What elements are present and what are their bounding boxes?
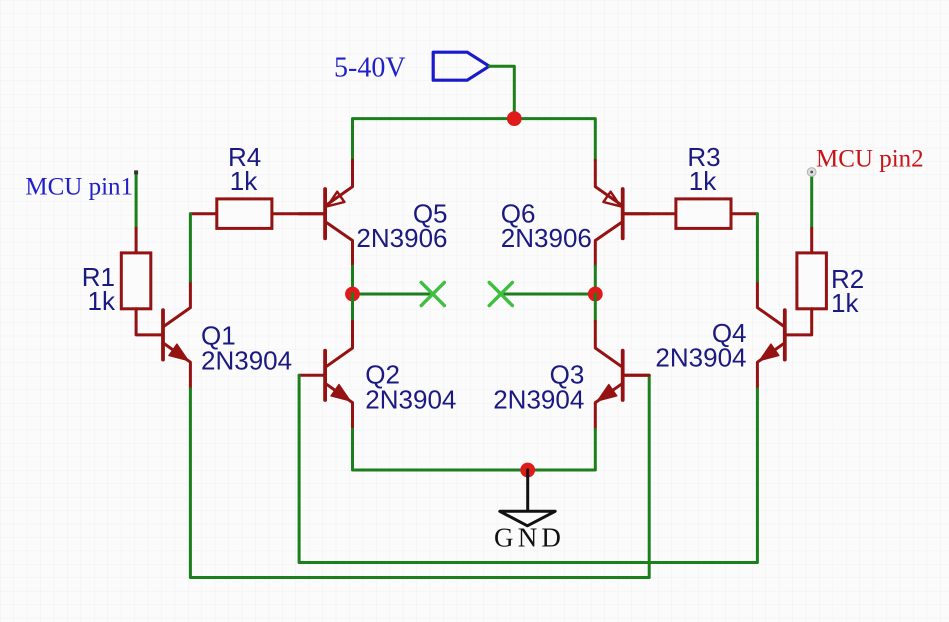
junction node A: [345, 287, 360, 302]
label MCU pin2: [816, 146, 924, 173]
wire node B stub: [501, 293, 596, 296]
svg-text:2N3904: 2N3904: [365, 384, 456, 414]
label R2: [831, 264, 864, 318]
svg-text:2N3906: 2N3906: [356, 223, 447, 253]
transistor Q3 (NPN): [595, 321, 648, 429]
wire Q1 collector to R4: [189, 214, 192, 281]
svg-text:2N3904: 2N3904: [493, 384, 584, 414]
label Q1: [201, 321, 292, 376]
transistor Q5 (PNP): [299, 160, 352, 266]
svg-text:2N3906: 2N3906: [501, 223, 592, 253]
svg-text:GND: GND: [494, 523, 565, 553]
resistor R1: [121, 228, 163, 335]
wire top rail: [353, 119, 596, 161]
ground GND: [494, 470, 565, 553]
transistor Q4 (NPN): [757, 281, 784, 389]
wire Q1 emitter to Q3 base: [190, 375, 649, 577]
svg-text:MCU pin2: MCU pin2: [816, 146, 924, 173]
transistor Q6 (PNP): [595, 160, 648, 266]
svg-text:1k: 1k: [88, 286, 116, 316]
wire supply: [489, 66, 514, 118]
transistor Q1 (NPN): [163, 281, 190, 389]
label Q2: [365, 360, 456, 415]
svg-text:1k: 1k: [230, 166, 258, 196]
wire Q2 emitter to ground bus: [353, 429, 528, 470]
svg-text:5-40V: 5-40V: [334, 53, 406, 84]
transistor Q2 (NPN): [299, 321, 352, 429]
junction node B: [588, 287, 603, 302]
label MCU pin1: [25, 174, 133, 201]
wire Q2 base to Q4 emitter: [299, 375, 757, 562]
svg-text:MCU pin1: MCU pin1: [25, 174, 133, 201]
junction supply/rail: [507, 111, 522, 126]
svg-text:1k: 1k: [689, 166, 717, 196]
wire Q4 collector to R3: [756, 214, 759, 281]
label R3: [687, 142, 720, 196]
label Q5: [356, 199, 447, 253]
wire Q3 emitter to ground bus: [528, 429, 596, 470]
power flag 5-40V: [334, 52, 489, 83]
label Q4: [655, 318, 746, 373]
wire Q5 collector to node: [351, 266, 354, 294]
svg-text:2N3904: 2N3904: [201, 345, 292, 375]
resistor R4: [190, 199, 325, 229]
no-connect X right: [489, 282, 512, 305]
no-connect X left: [421, 282, 444, 305]
wire node B to Q3: [594, 294, 597, 321]
wire MCU pin1: [134, 170, 138, 228]
label Q6: [501, 199, 592, 253]
label R1: [82, 262, 116, 316]
svg-text:2N3904: 2N3904: [655, 342, 746, 372]
label R4: [228, 142, 261, 196]
junction ground bus: [520, 463, 535, 478]
wire Q3 base pin: [623, 374, 650, 377]
wire Q6 collector to node: [594, 266, 597, 294]
wire node A stub: [353, 293, 433, 296]
label Q3: [493, 360, 584, 415]
svg-text:1k: 1k: [831, 288, 859, 318]
wire node A to Q2: [351, 294, 354, 321]
resistor R3: [623, 199, 758, 229]
resistor R2: [785, 228, 827, 335]
wire MCU pin2: [807, 168, 816, 229]
